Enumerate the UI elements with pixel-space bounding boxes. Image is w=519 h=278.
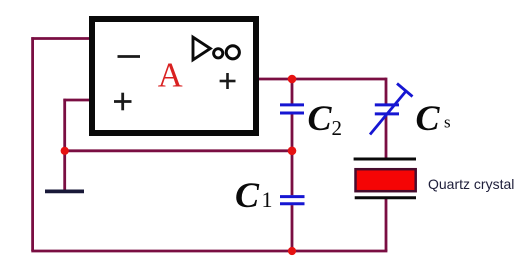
wire: output horizontal from amplifier to Cs branch bbox=[258, 78, 386, 81]
svg-text:C: C bbox=[416, 98, 441, 138]
crystal X1 bottom plate bbox=[355, 196, 416, 199]
op-amp A1 inverting input minus label bbox=[118, 55, 141, 58]
variable capacitor Cs arrow tip bar bbox=[397, 84, 413, 97]
ground bbox=[45, 189, 84, 193]
wire: bottom horizontal rail bbox=[31, 250, 387, 253]
variable capacitor Cs arrow shaft bbox=[370, 91, 407, 135]
op-amp gain label A bbox=[158, 56, 183, 94]
svg-text:A: A bbox=[158, 56, 183, 94]
crystal name label bbox=[428, 176, 514, 192]
capacitor C2 plates bbox=[280, 105, 304, 113]
wire: mid horizontal from ground node to node B bbox=[65, 149, 292, 152]
svg-text:s: s bbox=[444, 112, 451, 131]
crystal X1 body bbox=[356, 169, 416, 191]
capacitor C2 value label bbox=[308, 98, 343, 140]
svg-text:1: 1 bbox=[262, 187, 273, 212]
wire: right branch vertical from Cs to crystal top plate bbox=[385, 115, 388, 158]
junction dot: bottom rail node bbox=[288, 247, 296, 255]
wire: vertical below C1 to bottom rail bbox=[291, 205, 294, 251]
svg-text:Quartz crystal: Quartz crystal bbox=[428, 176, 514, 192]
infinity symbol bbox=[214, 46, 240, 59]
wire: vertical output node down to C2 top plate bbox=[291, 78, 294, 104]
wire: right branch vertical from output corner to Cs bbox=[385, 78, 388, 104]
op-amp A1 body box bbox=[92, 19, 256, 133]
svg-text:C: C bbox=[308, 98, 333, 138]
capacitor C1 value label bbox=[235, 175, 273, 215]
wire: top-left horizontal to inverting input bbox=[31, 37, 90, 40]
crystal X1 top plate bbox=[354, 158, 416, 161]
junction dot: node B between C1 and C2 bbox=[288, 147, 297, 156]
variable capacitor Cs plates bbox=[375, 105, 399, 114]
junction dot: ground node bbox=[61, 147, 69, 155]
wire: right branch vertical from crystal bottom plate to bottom rail bbox=[385, 199, 388, 252]
wire: non-inverting input horizontal bbox=[63, 99, 90, 102]
wire: left vertical feedback rail bbox=[31, 37, 34, 251]
junction dot: output node bbox=[288, 75, 297, 84]
variable capacitor Cs value label bbox=[416, 98, 451, 138]
wire: vertical from plus input down to ground bbox=[63, 99, 66, 190]
infinite-gain triangle symbol bbox=[193, 37, 210, 60]
wire: vertical between C2 and C1 through node B bbox=[291, 114, 294, 195]
svg-text:2: 2 bbox=[332, 116, 343, 140]
op-amp A1 non-inverting input plus label bbox=[114, 93, 132, 111]
op-amp output plus label bbox=[220, 73, 236, 89]
svg-text:C: C bbox=[235, 175, 260, 215]
capacitor C1 plates bbox=[280, 197, 305, 204]
